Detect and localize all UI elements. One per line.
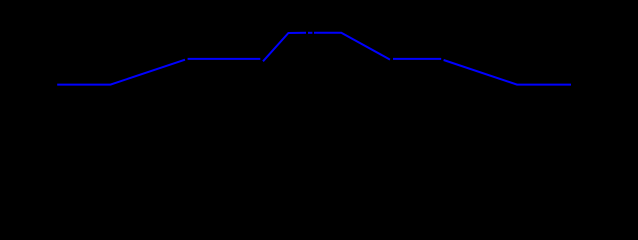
contour segment 6: mid flat	[393, 58, 441, 60]
contour segment 5: high flat then fall	[314, 33, 390, 60]
contour segment 7: shallow fall to low flat	[444, 60, 571, 85]
contour segment 2: mid flat	[188, 58, 261, 60]
contour segment 3: steep rise to high flat	[263, 33, 306, 62]
contour segment 1: low flat then rise	[57, 60, 185, 85]
contour segment 4: short high dash	[308, 32, 312, 34]
